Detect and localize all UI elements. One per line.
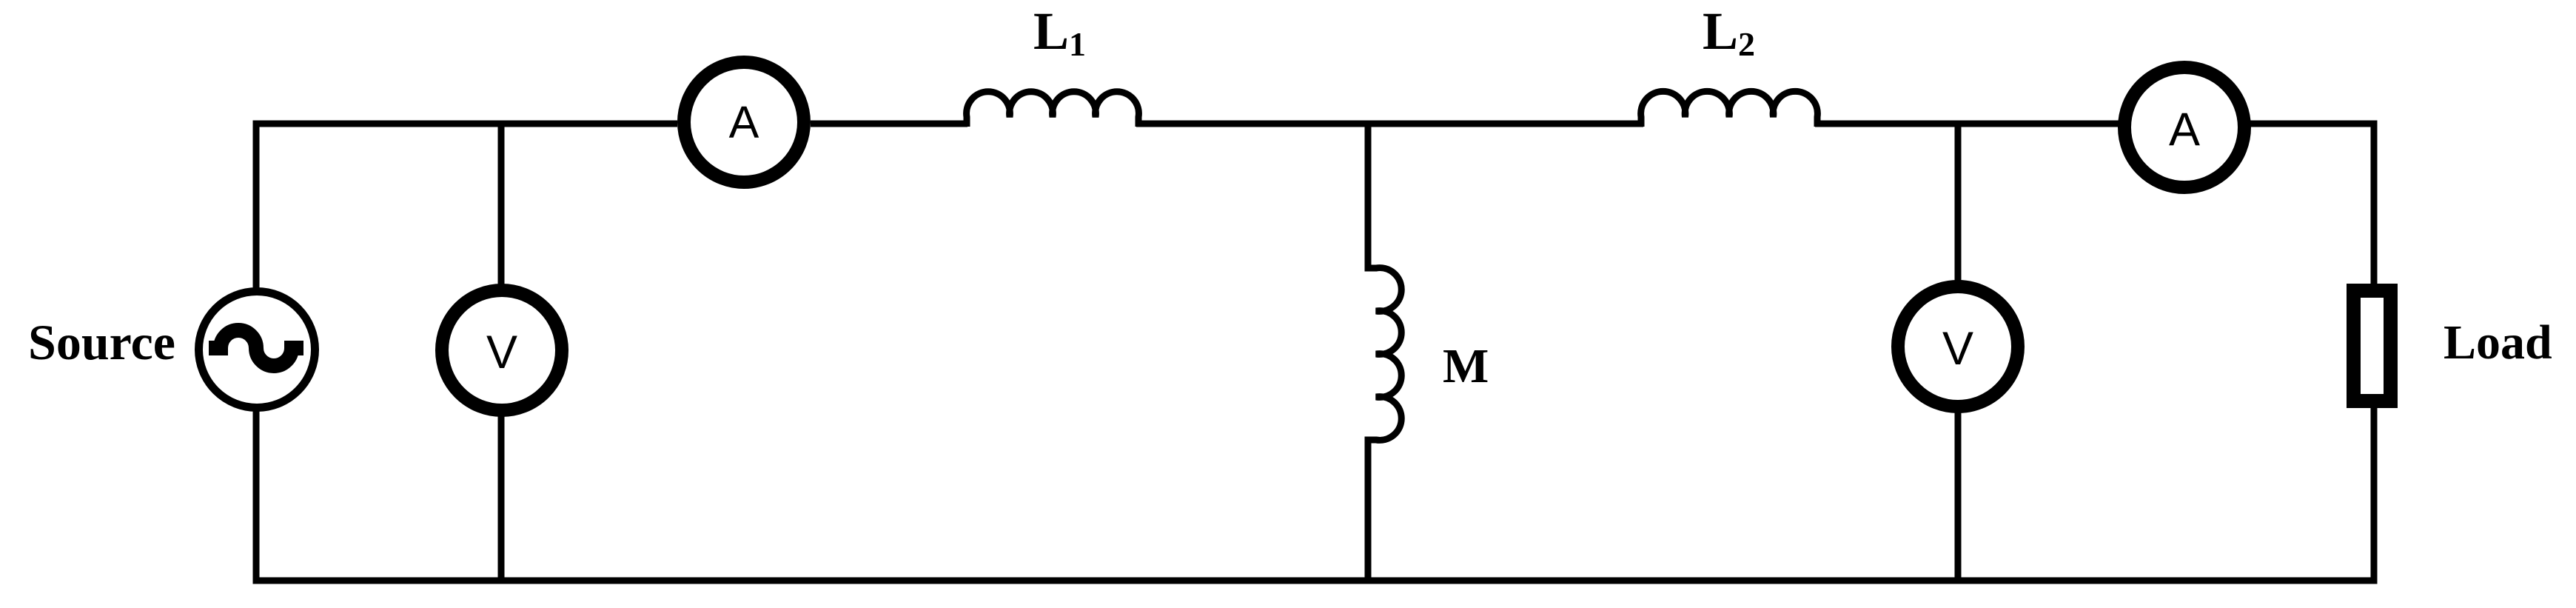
wire bottom rail — [253, 578, 2378, 584]
voltmeter V2 circle — [1898, 287, 2018, 407]
wire top rail left segment — [253, 121, 678, 127]
wire voltmeter V2 branch lower — [1955, 411, 1962, 584]
svg-text:A: A — [2169, 104, 2200, 156]
wire load branch upper — [2371, 121, 2378, 286]
wire source branch upper — [253, 121, 260, 291]
svg-text:M: M — [1443, 339, 1489, 393]
wire voltmeter V1 branch lower — [498, 415, 505, 584]
wire voltmeter V1 branch upper — [498, 121, 505, 287]
svg-text:A: A — [729, 97, 759, 147]
ammeter A2 circle — [2124, 67, 2244, 187]
wire load branch lower — [2371, 407, 2378, 584]
wire shunt M branch upper — [1365, 121, 1372, 269]
wire top rail L1-to-L2 segment — [1136, 121, 1643, 127]
wire shunt M branch lower — [1365, 440, 1372, 584]
AC source sine wave — [209, 330, 303, 366]
svg-text:Source: Source — [28, 314, 175, 370]
AC source circle — [199, 292, 315, 408]
wire voltmeter V2 branch upper — [1955, 121, 1962, 283]
wire source branch lower — [253, 409, 260, 584]
svg-text:V: V — [486, 327, 517, 378]
wire top rail L2-to-A2 segment — [1815, 121, 2126, 127]
wire top rail A1-to-L1 segment — [811, 121, 967, 127]
inductor M coil (vertical) — [1365, 268, 1402, 441]
svg-text:V: V — [1942, 323, 1973, 375]
ammeter A1 circle — [684, 62, 804, 182]
load resistor rectangle — [2354, 291, 2391, 401]
voltmeter V1 circle — [442, 290, 562, 410]
wire top rail A2-to-corner segment — [2243, 121, 2378, 127]
inductor L2 coil — [1641, 91, 1818, 127]
inductor L1 coil — [967, 92, 1139, 127]
svg-text:Load: Load — [2443, 315, 2552, 370]
